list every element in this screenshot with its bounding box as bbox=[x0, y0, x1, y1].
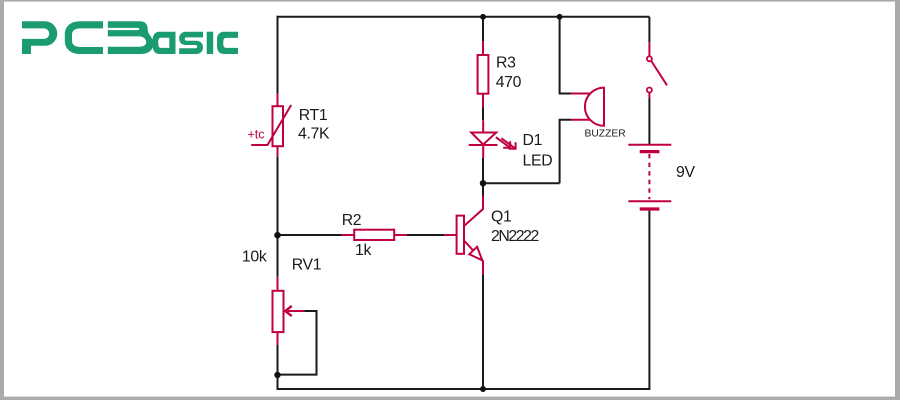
svg-text:2N2222: 2N2222 bbox=[491, 228, 539, 245]
svg-text:+tc: +tc bbox=[248, 128, 265, 142]
svg-text:R3: R3 bbox=[496, 55, 516, 72]
svg-text:9V: 9V bbox=[676, 164, 695, 181]
svg-text:4.7K: 4.7K bbox=[298, 126, 330, 143]
svg-text:BUZZER: BUZZER bbox=[585, 129, 626, 140]
svg-text:Q1: Q1 bbox=[491, 209, 512, 226]
svg-text:LED: LED bbox=[523, 153, 553, 170]
svg-text:RT1: RT1 bbox=[299, 107, 328, 124]
svg-text:10k: 10k bbox=[242, 248, 267, 265]
svg-text:R2: R2 bbox=[342, 212, 362, 229]
svg-text:RV1: RV1 bbox=[292, 257, 322, 274]
svg-text:470: 470 bbox=[496, 74, 522, 91]
svg-text:D1: D1 bbox=[523, 132, 543, 149]
svg-text:1k: 1k bbox=[355, 242, 371, 259]
